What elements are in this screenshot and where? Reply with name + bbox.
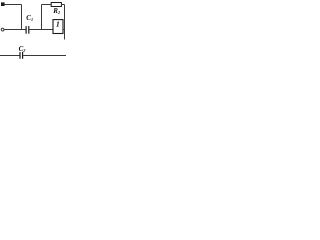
- wire (left vertical from top-left corner down to middle rail): [21, 5, 23, 30]
- resistor R2 (box symbol): [51, 3, 61, 7]
- capacitor C2: [20, 52, 23, 59]
- wire (top-left horizontal from square terminal): [5, 4, 22, 6]
- wire (amplifier output to right vertical): [63, 29, 65, 31]
- wire (right vertical from R2 down past amplifier output): [64, 5, 66, 40]
- node A (input top-left terminal, filled square): [1, 2, 5, 6]
- capacitor C1: [26, 26, 29, 34]
- wire (top horizontal from center vertical to resistor R2): [42, 4, 52, 6]
- wire (bottom rail left of capacitor C2): [0, 55, 20, 57]
- wire (middle rail left segment to capacitor C1): [4, 29, 26, 31]
- node B (input terminal, open circle, middle-left): [1, 28, 4, 31]
- wire (bottom rail right of capacitor C2): [23, 55, 66, 57]
- op-amp U1 (unity-gain amplifier block, gain 1): [53, 20, 63, 34]
- wire (middle rail from C1 to amplifier box input): [29, 29, 53, 31]
- wire (from R2 right side to right vertical): [61, 4, 64, 6]
- svg-text:1: 1: [56, 20, 60, 29]
- wire (center vertical from middle rail junction up to top wire): [41, 5, 43, 30]
